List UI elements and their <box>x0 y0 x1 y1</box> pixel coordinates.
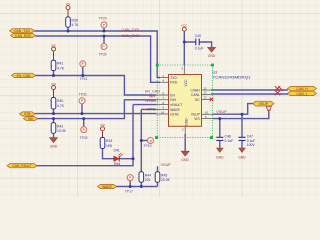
wire TP30 stub <box>103 36 105 43</box>
testpoint TP11 <box>80 61 88 81</box>
svg-text:4.7K: 4.7K <box>57 104 65 108</box>
wire C46 drop <box>219 119 221 137</box>
ground GND under C47 <box>238 148 246 159</box>
wire VCC top power stick and down to IC top pin <box>183 31 185 65</box>
svg-text:100V: 100V <box>247 143 256 147</box>
svg-text:TXD: TXD <box>170 76 177 80</box>
svg-text:0.1uF: 0.1uF <box>195 47 204 51</box>
svg-text:TP11: TP11 <box>80 77 88 81</box>
junction (53.5,118.6) <box>52 117 55 120</box>
capacitor C46 <box>216 135 233 143</box>
wire nFAULT pin from vertical x133 <box>133 104 156 106</box>
IC U3 top pin stub <box>183 65 185 75</box>
port CAN_L <box>288 91 317 96</box>
svg-text:VSUP: VSUP <box>161 163 172 167</box>
wire CANH to port <box>211 89 288 91</box>
svg-text:4.7K: 4.7K <box>57 66 65 70</box>
wire vertical nFAULT column down to CAN_FAULT row <box>37 105 133 166</box>
svg-text:GND: GND <box>181 158 189 162</box>
green selection dashed box around U3 <box>157 65 212 138</box>
wire WAKE pin from vertical x141 <box>141 108 156 110</box>
svg-text:WAKE: WAKE <box>170 108 180 112</box>
wire R40 power stick <box>53 90 55 98</box>
junction (242,114.2) <box>241 113 244 116</box>
resistor R45 <box>155 172 170 182</box>
junction (133,158.7) <box>132 157 135 160</box>
svg-text:Red: Red <box>114 162 120 166</box>
svg-text:VIO: VIO <box>51 43 57 47</box>
svg-text:EN: EN <box>170 93 175 97</box>
port CAN_FAULT <box>7 164 37 168</box>
svg-text:1K5: 1K5 <box>106 144 112 148</box>
power VIO above R40 <box>51 82 57 90</box>
wire VIO pin row to pill foot <box>213 110 269 118</box>
power VCC above IC <box>181 24 187 32</box>
wire R40 bottom stub to nSTB rail <box>53 109 55 114</box>
junction (82,113.6) <box>81 112 84 115</box>
IC U3 right pin stubs <box>202 90 214 119</box>
ground GND under R42 <box>50 138 58 149</box>
svg-text:WAKE: WAKE <box>102 185 113 189</box>
wire R39 bottom stub to CAN_TXD <box>67 27 69 31</box>
svg-text:TP30: TP30 <box>99 53 107 57</box>
ground GND right of C40 <box>208 47 216 58</box>
resistor R39 <box>66 17 80 27</box>
junction (104,36) <box>103 35 106 38</box>
port CAN_H <box>288 86 317 91</box>
no-ERC cross on CANL <box>275 90 280 95</box>
IC U3 pin names <box>170 76 200 126</box>
wire vertical WAKE column down to bottom rail <box>140 109 142 171</box>
junction (130.2,186.5) <box>129 185 132 188</box>
testpoint TP17 <box>125 175 133 194</box>
svg-text:VCC: VCC <box>184 79 188 87</box>
svg-text:STB: STB <box>24 112 31 116</box>
svg-text:INH: INH <box>149 94 156 98</box>
svg-text:INH: INH <box>28 117 34 121</box>
wire C47 bottom stub <box>241 141 243 148</box>
svg-text:R45: R45 <box>161 173 167 177</box>
wire R42 top stub from INH rail <box>53 119 55 123</box>
svg-text:13: 13 <box>204 91 208 95</box>
junction (141.3,140.5) <box>140 139 143 142</box>
svg-text:CAN_TXD: CAN_TXD <box>122 28 140 32</box>
svg-text:CAN_TXD: CAN_TXD <box>14 29 30 33</box>
svg-text:CAN_H: CAN_H <box>296 87 308 91</box>
svg-text:nSTB: nSTB <box>146 107 156 111</box>
svg-text:TCAN1043MDRQ1: TCAN1043MDRQ1 <box>213 74 252 79</box>
wire IC GND pin down to ground <box>184 134 186 151</box>
junction (184.3,42) <box>183 41 186 44</box>
junction (83.7,118.6) <box>82 117 85 120</box>
port CAN_TXD <box>10 29 35 33</box>
wire TP32 stub <box>83 119 85 127</box>
wire TP17 stub <box>129 181 131 187</box>
svg-text:10: 10 <box>205 111 209 115</box>
wire R41 power stick <box>53 51 55 60</box>
svg-text:TP17: TP17 <box>125 189 133 193</box>
wire R39 top power stick <box>67 10 69 17</box>
wire WAKE port rail <box>117 186 158 188</box>
wire R43 power stick <box>102 131 104 138</box>
junction (53.5,75.5) <box>52 74 55 77</box>
no-ERC cross on NC pin <box>210 98 214 102</box>
capacitor C40 <box>195 34 204 51</box>
junction (104,31) <box>103 30 106 33</box>
capacitor C47 <box>239 135 256 148</box>
wire C46 bottom stub <box>219 141 221 148</box>
svg-text:CANH: CANH <box>190 88 200 92</box>
svg-text:C40: C40 <box>195 34 201 38</box>
port VSUP (pill near top right of caps) <box>253 101 274 106</box>
svg-text:CAN_RXD: CAN_RXD <box>122 34 140 38</box>
svg-text:VSUP: VSUP <box>259 102 269 106</box>
port EN_CAN <box>12 73 36 78</box>
svg-text:CAN_FAULT: CAN_FAULT <box>12 164 31 168</box>
svg-text:R43: R43 <box>106 139 112 143</box>
svg-text:R41: R41 <box>57 62 63 66</box>
svg-text:10.0K: 10.0K <box>57 129 67 133</box>
port STB (nSTB) <box>20 112 36 116</box>
LED D41 <box>114 149 123 167</box>
wire CANL to port <box>211 93 288 95</box>
svg-text:GND: GND <box>208 54 216 58</box>
wire INH from port B via vertical to INH pin <box>38 100 157 119</box>
power VIO above R39 <box>66 2 72 10</box>
svg-text:TP10: TP10 <box>143 144 151 148</box>
svg-text:RXD: RXD <box>170 81 178 85</box>
svg-text:GND: GND <box>238 155 246 159</box>
svg-text:20.0K: 20.0K <box>161 178 171 182</box>
svg-text:EN_CAN: EN_CAN <box>145 90 160 94</box>
wire R41 bottom stub to EN_CAN <box>53 71 55 76</box>
power VIO above R41 <box>51 43 57 51</box>
wire R45 bottom stub <box>157 182 159 186</box>
IC U3 bottom pin stub <box>184 126 186 134</box>
wire R42 bottom stub to GND <box>53 133 55 137</box>
svg-text:GND: GND <box>216 155 224 159</box>
junction (68,31) <box>67 30 70 33</box>
wire nSTB from port A to nSTB pin <box>35 113 156 115</box>
wire TP29 stub <box>103 28 105 31</box>
junction (141.3,186.5) <box>140 185 143 188</box>
svg-text:NC: NC <box>195 98 200 102</box>
svg-text:TP31: TP31 <box>79 92 87 96</box>
svg-text:R42: R42 <box>57 124 63 128</box>
svg-text:nSTB: nSTB <box>170 112 179 116</box>
resistor R44 <box>139 172 151 182</box>
svg-text:GND: GND <box>50 144 58 148</box>
port CAN_RXD <box>11 33 36 37</box>
svg-text:CANL: CANL <box>191 93 200 97</box>
IC U3 body <box>169 75 202 127</box>
wire R45 top stub to VSUP label <box>157 166 159 172</box>
svg-text:11: 11 <box>204 86 207 90</box>
power VIO above R43 <box>100 123 106 131</box>
junction (53.5,113.6) <box>52 112 55 115</box>
resistor R42 <box>51 123 66 133</box>
wire EN_CAN from port via vertical to EN pin <box>36 76 157 96</box>
wire CAN_RXD horizontal from port to IC RXD <box>36 36 161 82</box>
wire TP10 spur <box>141 140 147 142</box>
svg-text:INH: INH <box>170 98 176 102</box>
wire LED row to nFAULT column <box>103 149 134 159</box>
svg-text:R40: R40 <box>57 99 63 103</box>
testpoint TP10 <box>143 138 153 148</box>
resistor R43 <box>100 138 112 149</box>
port INH <box>24 117 38 121</box>
svg-text:VSUP: VSUP <box>216 110 227 114</box>
wire CAN_TXD horizontal from port to IC TXD <box>35 31 161 78</box>
resistor R41 <box>51 60 65 70</box>
svg-text:D41: D41 <box>114 149 120 153</box>
IC U3 pin numbers <box>161 67 209 132</box>
svg-text:22k: 22k <box>145 178 151 182</box>
svg-text:CAN_RXD: CAN_RXD <box>15 34 32 38</box>
testpoint TP30 <box>99 44 108 57</box>
wire C47 drop <box>241 114 243 137</box>
svg-text:R44: R44 <box>145 173 151 177</box>
power-port foot under VSUP pill <box>266 106 271 110</box>
green selection handles <box>155 64 214 139</box>
svg-text:12: 12 <box>204 96 208 100</box>
svg-text:GND: GND <box>185 118 189 126</box>
wire C40 branch <box>184 42 211 47</box>
no-ERC cross on CANH <box>275 86 283 91</box>
svg-text:VIO: VIO <box>51 82 57 86</box>
svg-text:CAN_L: CAN_L <box>297 92 308 96</box>
svg-text:nFAULT: nFAULT <box>170 103 182 107</box>
testpoint TP31 <box>79 92 87 103</box>
svg-text:0.1uF: 0.1uF <box>225 139 234 143</box>
svg-text:R39: R39 <box>72 18 78 22</box>
testpoint TP29 <box>99 16 108 28</box>
wire R44 bottom stub <box>140 182 142 186</box>
testpoint TP32 <box>80 127 88 140</box>
svg-text:TP29: TP29 <box>99 16 107 20</box>
svg-text:14: 14 <box>161 110 165 114</box>
ground GND under IC pin 2 <box>181 151 189 162</box>
svg-text:4.7K: 4.7K <box>72 23 80 27</box>
svg-text:VIO: VIO <box>100 123 106 127</box>
svg-text:VIO: VIO <box>66 2 72 6</box>
ground GND under C46 <box>216 148 224 159</box>
wire TP31 stub <box>81 104 83 114</box>
svg-text:VSUP: VSUP <box>191 113 201 117</box>
wire VSUP pin row to pill port <box>213 104 253 115</box>
junction (219.8,118.6) <box>218 117 221 120</box>
svg-text:EN_CAN: EN_CAN <box>17 74 31 78</box>
svg-text:TP32: TP32 <box>80 136 88 140</box>
IC U3 left pin stubs <box>156 78 169 115</box>
svg-text:VIO: VIO <box>194 117 200 121</box>
resistor R40 <box>51 98 65 110</box>
port WAKE <box>98 184 117 189</box>
svg-text:VCC: VCC <box>181 24 187 28</box>
